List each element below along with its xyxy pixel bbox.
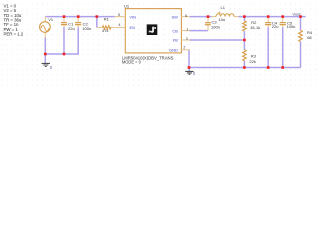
svg-text:L1: L1 — [221, 5, 226, 10]
svg-text:2: 2 — [183, 45, 185, 49]
op-amp U1 LMR50410 regulator IC box — [125, 9, 181, 53]
pin 1 CB stub — [181, 30, 190, 32]
resistor R3 symbol — [243, 50, 247, 61]
svg-text:4: 4 — [119, 23, 121, 27]
svg-text:10u: 10u — [219, 17, 226, 22]
ground symbol 0 left — [42, 63, 50, 66]
wire ground2 stem — [188, 68, 190, 72]
wire GND pin down — [188, 50, 190, 68]
wire R3 lower lead — [243, 61, 245, 68]
wire C5 column — [282, 27, 284, 67]
svg-text:3: 3 — [186, 37, 188, 41]
svg-text:22k: 22k — [249, 59, 255, 64]
resistor R1 symbol — [97, 26, 126, 29]
svg-text:SW: SW — [172, 14, 179, 19]
TI logo — [147, 24, 158, 35]
svg-text:22u: 22u — [272, 24, 279, 29]
svg-text:100n: 100n — [211, 24, 220, 29]
wire ground rail left — [45, 53, 78, 55]
wire R2-R3 FB junction link — [243, 31, 245, 50]
node directive text block PULSE parameters — [4, 4, 24, 37]
svg-text:100n: 100n — [82, 26, 91, 31]
svg-text:U1: U1 — [124, 3, 130, 8]
svg-text:5: 5 — [118, 13, 120, 17]
svg-text:VIN: VIN — [130, 14, 137, 19]
ground symbol 0 right — [185, 71, 193, 74]
capacitor C3 bootstrap — [205, 17, 211, 31]
capacitor C4 — [265, 17, 271, 28]
capacitor C5 — [280, 17, 286, 28]
resistor R2 symbol — [243, 21, 247, 31]
wire junction dots — [44, 15, 302, 68]
wire C1 lower lead net — [63, 27, 65, 54]
wire R2 upper lead — [243, 17, 245, 21]
svg-text:PER = 1.2: PER = 1.2 — [4, 31, 24, 36]
svg-text:GND: GND — [169, 47, 178, 52]
pin 2 GND stub — [181, 49, 189, 51]
wire C4 column — [267, 27, 269, 67]
wire CB pin to bootstrap cap — [190, 30, 209, 32]
wire V1 bottom to ground — [44, 38, 46, 64]
wire R4 lower lead — [300, 42, 302, 68]
svg-text:6: 6 — [185, 14, 187, 18]
wire SW pin to inductor — [190, 16, 212, 18]
pin 5 VIN stub — [115, 16, 126, 18]
svg-text:68: 68 — [307, 35, 312, 40]
wire FB pin to divider — [190, 39, 245, 41]
capacitor C1 — [61, 17, 67, 28]
svg-text:22u: 22u — [68, 26, 75, 31]
wire C2 lower lead net — [77, 27, 79, 55]
inductor L1 symbol — [212, 12, 239, 17]
svg-text:47k: 47k — [102, 28, 108, 33]
svg-text:MODE = 0: MODE = 0 — [122, 59, 142, 64]
wire inductor to Vout node — [239, 16, 306, 18]
wire ground rail right — [189, 67, 301, 69]
resistor R4 symbol — [299, 31, 303, 42]
svg-text:EN: EN — [130, 25, 136, 30]
svg-text:CB: CB — [172, 28, 178, 33]
svg-text:1: 1 — [186, 27, 188, 31]
wire top rail VIN net — [45, 16, 115, 18]
svg-text:R1: R1 — [104, 17, 110, 22]
svg-text:Vout: Vout — [293, 11, 302, 16]
svg-text:100n: 100n — [287, 24, 296, 29]
wire EN branch vertical — [96, 17, 98, 28]
voltage source V1 pulse symbol — [40, 17, 51, 38]
pin 3 FB stub — [181, 39, 190, 41]
wire R4 upper lead — [300, 17, 302, 31]
pin 6 SW stub — [181, 16, 190, 18]
svg-text:FB: FB — [173, 38, 178, 43]
capacitor C2 — [75, 17, 81, 28]
svg-text:81.1k: 81.1k — [251, 25, 261, 30]
svg-text:V1: V1 — [48, 18, 53, 22]
